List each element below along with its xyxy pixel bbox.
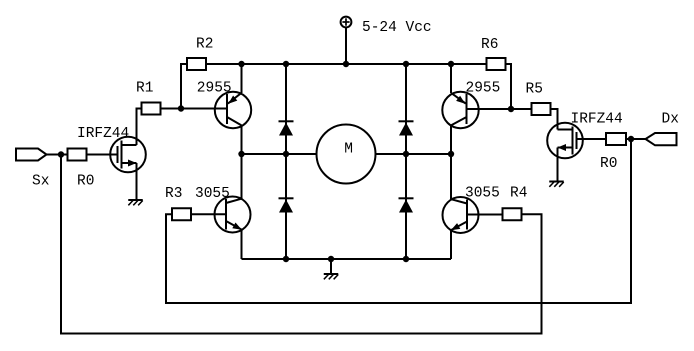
svg-text:2955: 2955 (197, 81, 232, 97)
resistor R5 (532, 103, 551, 115)
wire R6 right riser (506, 64, 512, 109)
svg-text:R3: R3 (165, 186, 182, 202)
wire Dx to R3 feedback (166, 139, 631, 303)
ground left (128, 199, 143, 201)
svg-text:2955: 2955 (466, 81, 501, 97)
wire Q4 collector to mid rail (450, 125, 452, 154)
wire gate left (87, 154, 118, 156)
node mid rail D3 (403, 151, 409, 157)
wire mid rail right (376, 153, 452, 155)
wire top rail (206, 63, 487, 65)
resistor R3 (172, 208, 191, 220)
wire gate right (577, 138, 607, 140)
diode D4 (399, 197, 414, 199)
transistor Q5 3055 right (443, 197, 479, 233)
wire R3 to Q3 base (191, 213, 226, 215)
diode D2 (279, 197, 294, 199)
svg-text:R6: R6 (481, 37, 498, 53)
wire mid rail to Q5 collector (450, 154, 452, 200)
node bottom rail D4 (403, 256, 409, 262)
wire diode column upper-left (285, 64, 287, 154)
wire R4 to Q5 base (467, 214, 503, 216)
transistor Q6 IRFZ44 right (547, 123, 583, 159)
node top rail left (238, 61, 244, 67)
wire diode column lower-right (405, 154, 407, 259)
resistor R4 (503, 208, 522, 220)
wire Q2 collector to mid rail (241, 125, 243, 154)
svg-text:Sx: Sx (32, 174, 50, 190)
wire rail to Q2 emitter (241, 64, 243, 93)
svg-text:IRFZ44: IRFZ44 (571, 112, 623, 128)
svg-text:R2: R2 (196, 37, 213, 53)
wire rail to Q4 emitter (450, 64, 452, 93)
svg-text:Dx: Dx (662, 112, 680, 128)
svg-text:R4: R4 (510, 186, 527, 202)
node Sx junction (58, 151, 64, 157)
transistor Q4 2955 right (442, 92, 478, 128)
svg-text:R5: R5 (526, 82, 543, 98)
wire mid rail left (242, 153, 317, 155)
wire power stem (345, 28, 347, 64)
node power stem junction (343, 61, 349, 67)
wire R2 left riser (181, 64, 188, 109)
resistor R1 (142, 103, 161, 115)
connector Dx (646, 133, 677, 145)
wire source down left (136, 163, 138, 200)
transistor Q3 3055 left (215, 197, 251, 233)
diode D1 (279, 120, 294, 122)
ground right (549, 181, 564, 183)
wire diode column lower-left (285, 154, 287, 259)
svg-text:5-24 Vcc: 5-24 Vcc (362, 20, 432, 36)
wire R5 to drain (551, 109, 558, 130)
connector Sx (16, 149, 47, 161)
wire Dx lead (626, 138, 646, 140)
svg-text:IRFZ44: IRFZ44 (77, 126, 129, 142)
svg-text:3055: 3055 (195, 186, 230, 202)
svg-text:R0: R0 (600, 156, 617, 172)
node right base junction (508, 106, 514, 112)
wire Sx to R4 feedback (61, 155, 542, 334)
resistor R6 (487, 58, 506, 70)
ground center (324, 273, 339, 275)
svg-text:R1: R1 (136, 81, 153, 97)
transistor Q2 2955 left (215, 92, 251, 128)
wire Q3 emitter to bottom rail (241, 230, 243, 259)
resistor R0 right (606, 133, 626, 145)
wire ground stem (330, 259, 332, 274)
wire drain riser left (137, 109, 142, 146)
wire mid rail to Q3 collector (241, 154, 243, 199)
wire source down right (557, 148, 559, 182)
wire Q5 emitter to bottom rail (450, 231, 452, 260)
svg-text:M: M (344, 142, 353, 158)
wire diode column upper-right (405, 64, 407, 154)
wire Sx lead (47, 154, 68, 156)
resistor R2 (187, 58, 206, 70)
wire bottom rail (242, 258, 452, 260)
node top rail right (448, 61, 454, 67)
diode D3 (399, 120, 414, 122)
svg-text:3055: 3055 (465, 186, 500, 202)
node rail D1 (283, 61, 289, 67)
node mid rail right column (448, 151, 454, 157)
resistor R0 left (68, 149, 87, 161)
node ground junction (328, 256, 334, 262)
node Dx junction (628, 136, 634, 142)
transistor Q1 IRFZ44 left (110, 137, 146, 173)
motor M (317, 125, 376, 184)
svg-text:R0: R0 (77, 174, 94, 190)
power symbol Vcc (341, 17, 352, 28)
node left base junction (178, 105, 184, 111)
node mid rail left column (238, 151, 244, 157)
node bottom rail D2 (283, 256, 289, 262)
node rail D3 (403, 61, 409, 67)
node mid rail D1 (283, 151, 289, 157)
wire node R1 to base (161, 108, 228, 110)
wire base right node (467, 108, 532, 110)
